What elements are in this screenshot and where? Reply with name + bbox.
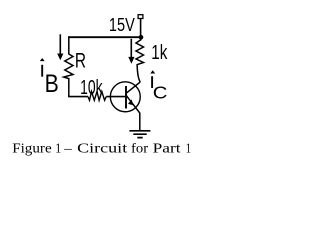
svg-text:15V: 15V xyxy=(109,14,136,35)
resistor 10k xyxy=(88,92,106,101)
resistor 1k xyxy=(136,38,144,82)
svg-text:B: B xyxy=(45,69,59,97)
svg-text:Figure: Figure xyxy=(12,141,51,156)
svg-text:10k: 10k xyxy=(80,75,103,98)
label iC xyxy=(151,76,153,88)
current arrow iC xyxy=(130,39,132,57)
svg-text:Part: Part xyxy=(153,141,182,156)
wire base lead xyxy=(106,96,125,98)
svg-text:R: R xyxy=(75,48,86,72)
svg-text:C: C xyxy=(153,83,168,102)
transistor Q1 circle xyxy=(110,82,140,112)
ground xyxy=(129,131,150,138)
transistor base bar xyxy=(125,86,127,109)
current arrow iB xyxy=(59,34,61,54)
svg-text:1k: 1k xyxy=(151,41,168,64)
svg-text:–: – xyxy=(63,141,72,156)
label iB xyxy=(41,65,43,77)
wire terminal down xyxy=(140,19,142,37)
wire top rail xyxy=(68,36,141,38)
wire base horizontal xyxy=(68,96,88,98)
node junction xyxy=(139,35,144,40)
svg-text:1: 1 xyxy=(55,139,61,155)
resistor R xyxy=(64,36,73,96)
transistor emitter with arrow xyxy=(126,95,140,130)
svg-text:1: 1 xyxy=(186,140,191,156)
svg-text:for: for xyxy=(131,141,148,157)
svg-text:Circuit: Circuit xyxy=(77,141,128,156)
wire collector diagonal xyxy=(126,82,140,93)
power terminal 15V xyxy=(138,15,143,19)
